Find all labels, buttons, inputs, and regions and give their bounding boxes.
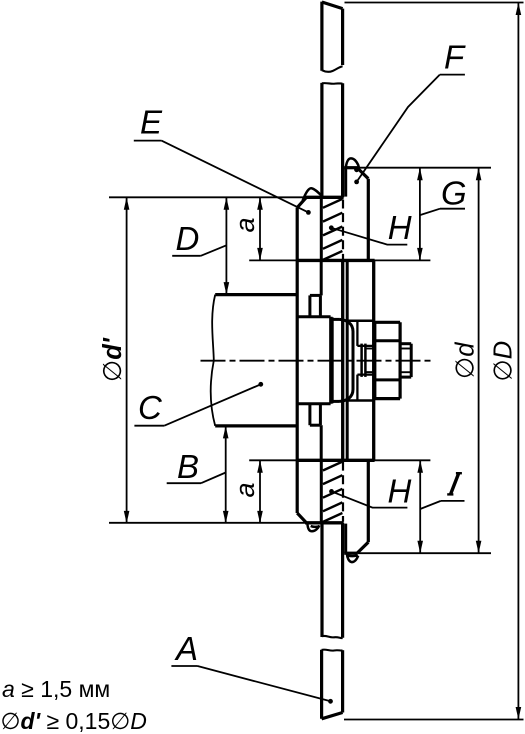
∅d bottom extension line [358,552,491,554]
svg-text:D: D [176,220,200,257]
svg-text:B: B [177,448,199,485]
nut [375,322,400,398]
key on shaft (upper) [310,295,321,316]
wheel A : bottom break segment [322,650,343,719]
spindle C : shaft [211,295,297,426]
nut washer flat / stud end [400,344,411,377]
∅D bottom extension line [344,719,524,721]
dimension G line [417,168,423,261]
sleeve / bushing with spherical side [332,317,353,403]
wheel A : hidden right edge in upper clamp (dashed) [342,200,344,260]
centerline (axis) [201,360,431,362]
dimension ∅d [476,168,482,554]
dimension I line [417,460,423,553]
dimension D [224,197,230,294]
stud / bolt shaft [357,346,374,375]
left flange E : outer face and chamfers [297,197,306,522]
svg-text:F: F [444,38,466,75]
svg-text:∅D: ∅D [490,341,518,382]
svg-text:H: H [388,472,412,509]
lower gasket H : hatched section [323,462,343,522]
svg-text:C: C [138,389,163,426]
svg-text:∅d' ≥ 0,15∅D: ∅d' ≥ 0,15∅D [1,708,147,734]
spring washer [362,344,366,377]
dimension ∅D [516,3,522,720]
washer lines at stud [367,349,375,373]
gasket lip curl top-left [303,188,322,201]
lower gasket H : bottom line [109,522,307,524]
svg-text:a: a [230,217,260,232]
left flange E : rim inner verticals [320,197,323,522]
upper gasket H : top line [109,196,307,198]
wheel right edge above/below flange rim [341,196,344,199]
right flange F : hub steps [347,260,374,460]
gasket lip curl bottom-left [307,523,319,531]
svg-text:G: G [441,175,467,212]
wheel A : upper main segment [322,83,343,197]
dimension a (lower) [257,460,263,523]
left flange E : hub [298,317,331,404]
svg-text:a: a [230,482,260,497]
label I with leader [447,473,462,494]
svg-text:∅d': ∅d' [99,337,127,382]
wheel right edge / flange inner face (middle, solid) [341,260,344,460]
svg-text:a ≥ 1,5 мм: a ≥ 1,5 мм [2,676,110,702]
svg-text:E: E [140,104,163,141]
right flange F : top extension line to ∅d [344,167,491,169]
svg-text:H: H [388,209,412,246]
wheel left edge between clamps [320,260,323,460]
upper gasket H : hatched section [323,199,343,260]
gasket lip curl top-right [346,158,359,170]
wheel A : lower main segment [322,523,343,638]
∅D top extension line [345,2,524,4]
dimension B (left lower) [223,426,229,524]
svg-text:A: A [174,630,198,667]
clamp zone bottom line (upper) [249,259,430,261]
clamp zone top line (lower) [249,459,430,461]
svg-text:∅d: ∅d [452,342,480,379]
dimension ∅d' [124,197,130,523]
key on shaft (lower) [310,404,321,425]
wheel A : hidden right edge in lower clamp (dashed) [342,462,344,522]
dimension a (upper) [257,197,263,260]
wheel A : top break segment [322,2,343,72]
gasket lip curl bottom-right [347,553,358,562]
right flange F : outline [344,168,374,554]
